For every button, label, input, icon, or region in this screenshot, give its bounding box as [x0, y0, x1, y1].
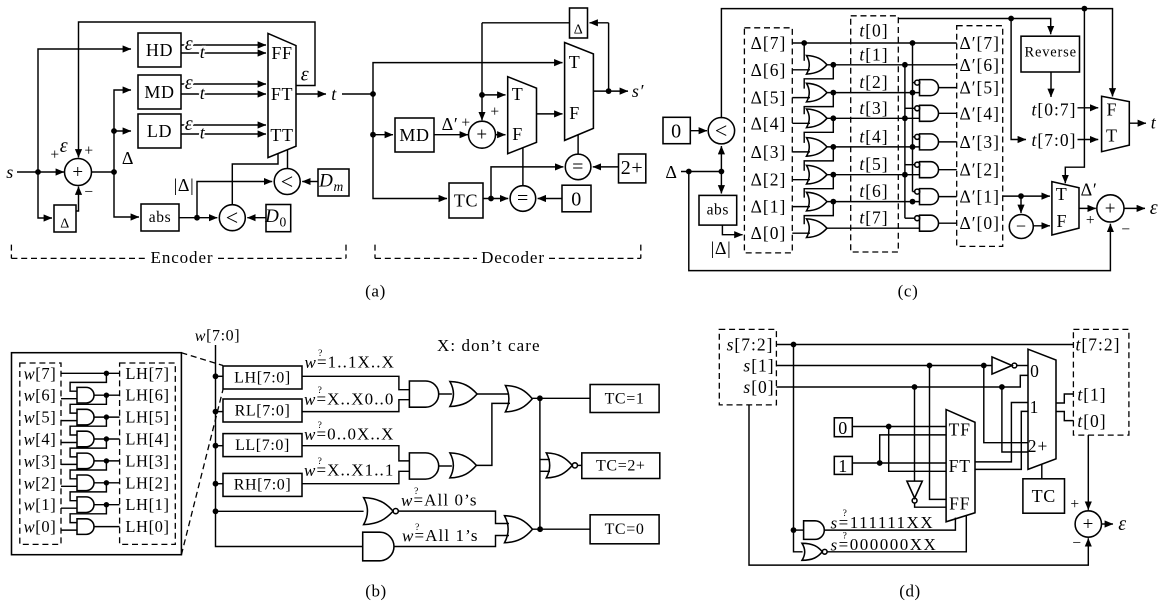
- encoder bracket dashes: [11, 257, 346, 259]
- svg-text:w[4]: w[4]: [24, 430, 57, 449]
- delay register Z1 encoder: [54, 205, 76, 232]
- svg-text:LD: LD: [147, 121, 172, 141]
- comparator U8 equals lower: [510, 186, 536, 212]
- junction D7 gate: [801, 40, 807, 46]
- wire Dm to comparator: [302, 181, 318, 183]
- svg-text:0: 0: [671, 121, 682, 143]
- gate OR c5: [807, 165, 828, 184]
- svg-text:ε: ε: [1150, 197, 1158, 219]
- junction b2: [104, 414, 109, 419]
- svg-text:Δ: Δ: [574, 23, 584, 38]
- wire LD t to mux TT: [181, 133, 266, 135]
- svg-text:Δ′[3]: Δ′[3]: [959, 132, 1000, 152]
- block 0 constant decoder: [562, 185, 591, 212]
- junction t bus branch: [1008, 16, 1014, 22]
- wire all1 out to or3: [394, 536, 509, 547]
- gate OR m2: [450, 453, 477, 478]
- wire s input to adder: [17, 171, 64, 173]
- svg-text:?: ?: [414, 487, 419, 497]
- svg-text:2+: 2+: [621, 157, 643, 179]
- gate AND c1: [920, 80, 939, 96]
- junction A t6: [910, 199, 916, 205]
- bubble nor d: [822, 549, 827, 554]
- svg-text:Δ[5]: Δ[5]: [751, 88, 787, 108]
- wire D6 stub: [792, 69, 810, 71]
- svg-text:Reverse: Reverse: [1025, 45, 1077, 61]
- wire s to delay input: [38, 172, 52, 218]
- wire or3 out to TC0: [533, 528, 591, 530]
- wire bubble stub 3: [913, 136, 915, 138]
- decoder bracket dashes: [375, 257, 641, 259]
- bubble and5: [915, 189, 920, 194]
- svg-text:Δ′[2]: Δ′[2]: [959, 160, 1000, 180]
- svg-text:0: 0: [838, 418, 848, 438]
- svg-text:+: +: [490, 104, 499, 121]
- mux U13 reverse select: [1102, 96, 1130, 151]
- adder U12 c: [1097, 195, 1124, 222]
- wire bubble stub 6: [905, 217, 915, 219]
- gate OR big: [505, 386, 532, 412]
- wire bubble stub 5: [913, 191, 915, 193]
- wire LL to and2: [302, 446, 409, 461]
- wire Delta up to comparator: [720, 146, 722, 172]
- junction Delta bottom branch: [686, 169, 692, 175]
- wire sign select top line: [721, 9, 1112, 119]
- junction g3: [830, 115, 836, 121]
- svg-text:+: +: [1086, 212, 1095, 229]
- junction g2: [830, 90, 836, 96]
- svg-text:T: T: [1106, 126, 1118, 146]
- zoom dashed diag top: [181, 353, 223, 366]
- t dashed bus box d: [1073, 329, 1129, 435]
- detail outer box: [12, 353, 182, 555]
- delay register Z2 decoder: [570, 8, 588, 38]
- gate AND b6: [77, 497, 94, 513]
- block 0 constant d: [834, 418, 852, 437]
- decoder bracket left tick: [374, 245, 376, 259]
- svg-text:RH[7:0]: RH[7:0]: [234, 477, 292, 494]
- wire s72 to t72: [776, 344, 1073, 346]
- encoder bracket left tick: [10, 245, 12, 259]
- wire mux output t: [296, 93, 326, 95]
- wire w0 stub: [61, 529, 78, 531]
- svg-text:Encoder: Encoder: [151, 248, 214, 267]
- gate AND c6: [920, 215, 939, 231]
- wire delta to LD: [114, 130, 131, 132]
- svg-text:?: ?: [843, 509, 848, 519]
- svg-text:s′: s′: [632, 81, 645, 101]
- svg-text:(c): (c): [898, 282, 919, 301]
- wire mux select from comparator D0: [232, 154, 278, 205]
- svg-text:<: <: [281, 169, 294, 194]
- wire zig c2: [804, 65, 833, 89]
- junction 1: [877, 460, 883, 466]
- svg-text:<: <: [715, 118, 728, 143]
- bubble inverter d: [912, 498, 917, 503]
- svg-text:t[0]: t[0]: [859, 21, 888, 41]
- adder U5 decoder: [469, 121, 496, 148]
- wire w7 to LH7: [61, 372, 120, 374]
- svg-text:F: F: [1106, 100, 1117, 120]
- wire t1 line: [827, 64, 957, 66]
- svg-text:w[6]: w[6]: [24, 386, 57, 405]
- wire D2 stub: [792, 179, 810, 181]
- wire nor zeros out to mux select: [827, 516, 966, 552]
- wire bubble stub 1: [913, 82, 915, 84]
- svg-text:FT: FT: [271, 84, 293, 104]
- svg-text:Δ[4]: Δ[4]: [751, 113, 787, 133]
- svg-text:Δ[7]: Δ[7]: [751, 33, 787, 53]
- wire t to MD decoder: [373, 134, 393, 136]
- block abs: [141, 204, 179, 231]
- svg-text:|Δ|: |Δ|: [711, 238, 732, 258]
- junction A t2: [910, 90, 916, 96]
- bubble and2: [915, 106, 920, 111]
- wire vertical A t even: [912, 43, 914, 192]
- svg-text:t[7:2]: t[7:2]: [1076, 335, 1121, 355]
- adder U1 sum circle: [65, 159, 92, 186]
- wire gate b6 out: [94, 504, 120, 506]
- wire HD t to mux FF: [181, 52, 266, 54]
- svg-text:t[6]: t[6]: [859, 181, 888, 201]
- svg-text:HD: HD: [146, 40, 173, 60]
- junction or3 out: [537, 526, 543, 532]
- svg-text:Δ′[6]: Δ′[6]: [959, 55, 1000, 75]
- svg-text:ε: ε: [185, 33, 193, 55]
- svg-text:Δ[0]: Δ[0]: [751, 223, 787, 243]
- svg-text:w=All 0’s: w=All 0’s: [401, 491, 478, 510]
- junction B t1: [902, 62, 908, 68]
- wire D0 to comparator: [247, 217, 266, 219]
- wire select to TF mux: [1065, 9, 1084, 184]
- svg-text:w[7:0]: w[7:0]: [195, 328, 240, 345]
- svg-text:?: ?: [318, 421, 323, 431]
- svg-text:Δ: Δ: [60, 217, 70, 232]
- wire and2 out: [939, 112, 957, 114]
- wire s72 vertical to gates: [794, 345, 803, 552]
- svg-text:+: +: [84, 143, 93, 160]
- svg-text:+: +: [1070, 496, 1079, 513]
- wire 0 to equals: [538, 198, 562, 200]
- svg-text:FF: FF: [949, 494, 970, 514]
- wire w4 stub: [61, 442, 78, 444]
- mux U6 inner decoder: [508, 77, 537, 154]
- wire s0 line: [776, 375, 1028, 387]
- wire t4 line: [827, 146, 920, 148]
- gate OR c3: [807, 109, 828, 128]
- SECTION C: [663, 6, 1158, 301]
- wire t bus to reverse: [898, 19, 1050, 35]
- svg-text:s: s: [6, 162, 14, 182]
- svg-text:ε: ε: [185, 72, 193, 94]
- wire or1 to bigor: [477, 393, 509, 395]
- wire w2 stub: [61, 485, 78, 487]
- wire s1 line: [776, 365, 992, 367]
- junction bigor out: [537, 395, 543, 401]
- wire t3 line: [827, 117, 920, 119]
- mux U11 TF c: [1052, 182, 1079, 235]
- svg-text:w[7]: w[7]: [24, 364, 57, 383]
- block LD: [138, 114, 181, 148]
- svg-text:−: −: [1016, 216, 1027, 236]
- svg-text:2+: 2+: [1028, 436, 1049, 456]
- wire and ones out to mux select: [824, 518, 955, 531]
- junction inner mux T branch: [479, 92, 485, 98]
- encoder bracket right tick: [345, 245, 347, 259]
- gate AND c4: [920, 162, 939, 178]
- svg-text:w[1]: w[1]: [24, 495, 57, 514]
- wire t7 line: [827, 227, 920, 229]
- junction g1: [830, 62, 836, 68]
- wire Dp1 to mux T: [1003, 195, 1050, 197]
- svg-text:TT: TT: [270, 125, 293, 145]
- junction g6: [830, 199, 836, 205]
- wire and1 out: [939, 87, 957, 89]
- junction b4: [104, 458, 109, 463]
- wire t07 to revmux F: [1078, 107, 1099, 109]
- wire abs output: [179, 217, 217, 219]
- block MD decoder: [395, 118, 434, 152]
- block 1 constant d: [834, 456, 852, 474]
- wire and3 out: [939, 141, 957, 143]
- gate AND c2: [920, 105, 939, 121]
- wire bus to LL: [216, 445, 224, 447]
- wire mux select from comparator Dm: [287, 150, 289, 169]
- junction bus LH: [213, 373, 219, 379]
- svg-text:Δ: Δ: [122, 148, 134, 168]
- wire zig c6: [804, 175, 833, 198]
- wire TC out to equals lower: [483, 198, 508, 200]
- wire 0 to comparator: [690, 130, 707, 132]
- junction abs out: [194, 215, 200, 221]
- svg-text:t: t: [331, 84, 337, 104]
- svg-text:t[0]: t[0]: [1077, 411, 1106, 431]
- wire s1 to FF: [930, 366, 947, 500]
- junction s72: [791, 342, 797, 348]
- bubble and3: [915, 134, 920, 139]
- svg-text:ε: ε: [60, 135, 68, 157]
- wire inner mux out to outer mux F: [537, 113, 563, 115]
- svg-text:0: 0: [1030, 361, 1040, 381]
- svg-text:F: F: [1056, 211, 1067, 231]
- gate AND b5: [77, 475, 94, 491]
- svg-text:+: +: [1083, 514, 1094, 535]
- wire inverter to 0 input: [1017, 365, 1028, 367]
- wire RH to and2: [302, 471, 409, 483]
- svg-text:Δ′[4]: Δ′[4]: [959, 103, 1000, 123]
- gate AND b4: [77, 453, 94, 469]
- wire MD to adder decoder: [434, 134, 468, 136]
- svg-text:t[1]: t[1]: [1077, 385, 1106, 405]
- wire s bus feedback bottom: [749, 405, 1088, 565]
- bubble inverter d2: [1012, 363, 1017, 368]
- wire t5 line: [827, 174, 920, 176]
- wire bigmux out t0: [1056, 412, 1073, 421]
- svg-text:1: 1: [1030, 397, 1040, 417]
- svg-text:t[4]: t[4]: [859, 126, 888, 146]
- block TC decoder: [449, 183, 483, 218]
- wire 2plus to equals: [593, 166, 619, 168]
- wire D1 stub: [792, 206, 810, 208]
- svg-text:TC=2+: TC=2+: [596, 457, 646, 474]
- wire D3 stub: [792, 151, 810, 153]
- wire gate b1 out: [94, 394, 120, 396]
- svg-text:(d): (d): [899, 582, 921, 601]
- svg-text:t[2]: t[2]: [859, 72, 888, 92]
- block TC d: [1023, 479, 1065, 513]
- wire bigmux out t1: [1056, 394, 1073, 403]
- mux U7 outer decoder: [565, 43, 594, 141]
- junction Dp1: [1018, 193, 1024, 199]
- wire t up to outer mux T: [373, 63, 563, 94]
- adder U16 d: [1075, 511, 1101, 537]
- wire bus to RL: [216, 411, 224, 413]
- junction B t3: [902, 115, 908, 121]
- block TC0: [590, 515, 659, 544]
- svg-text:abs: abs: [707, 202, 729, 219]
- gate OR c7: [807, 219, 828, 238]
- svg-text:?: ?: [843, 532, 848, 542]
- wire zig b3: [70, 417, 106, 435]
- svg-text:1: 1: [838, 456, 848, 476]
- svg-text:T: T: [512, 84, 524, 104]
- wire reverse to t07: [1050, 72, 1052, 97]
- wire bus to LH: [216, 375, 224, 377]
- svg-text:Δ′[5]: Δ′[5]: [959, 78, 1000, 98]
- wire and6 out: [939, 222, 957, 224]
- wire revmux out t: [1129, 122, 1146, 124]
- svg-text:ε: ε: [1118, 513, 1126, 535]
- svg-text:Δ[2]: Δ[2]: [751, 170, 787, 190]
- SECTION A ENCODER: [6, 22, 386, 301]
- wire 1 crossover to TF: [880, 435, 946, 463]
- svg-text:FF: FF: [271, 43, 292, 63]
- wire delay output to adder minus: [76, 187, 79, 212]
- wire zig b4: [70, 439, 106, 457]
- gate AND m1: [409, 381, 438, 407]
- wire 0 crossover to FT: [889, 427, 946, 472]
- svg-text:Δ′: Δ′: [1081, 180, 1098, 200]
- wire bubble stub 4: [905, 164, 915, 166]
- comparator U4 less-than D0: [219, 205, 245, 231]
- block TC1: [590, 385, 659, 413]
- svg-text:ε: ε: [301, 64, 309, 86]
- svg-text:=: =: [517, 188, 529, 210]
- svg-text:t[1]: t[1]: [859, 44, 888, 64]
- wire HD eps to mux FF: [181, 44, 266, 46]
- bubble and1: [915, 80, 920, 85]
- wire nor2 out: [578, 464, 582, 466]
- wire bigmux select TC: [1041, 464, 1043, 479]
- junction delta node: [111, 169, 117, 175]
- junction g4: [830, 144, 836, 150]
- SECTION B: [12, 328, 660, 601]
- wire LH to and1: [302, 376, 409, 389]
- svg-text:w[5]: w[5]: [24, 408, 57, 427]
- t dashed bus box: [851, 16, 899, 252]
- svg-text:LH[2]: LH[2]: [125, 473, 169, 492]
- junction t0 branch: [910, 40, 916, 46]
- svg-text:s[1]: s[1]: [743, 356, 774, 376]
- svg-text:s[7:2]: s[7:2]: [727, 335, 774, 355]
- wire mux to adder c: [1079, 207, 1096, 209]
- wire delta down to abs: [114, 172, 139, 217]
- wire adder output delta: [92, 171, 115, 173]
- svg-text:t: t: [200, 83, 206, 103]
- wire MD eps to mux FT: [181, 83, 266, 85]
- svg-text:−: −: [1072, 535, 1081, 552]
- svg-text:abs: abs: [149, 209, 171, 226]
- svg-text:Δ: Δ: [665, 162, 677, 182]
- wire gate b2 out: [94, 416, 120, 418]
- svg-text:+: +: [1105, 198, 1116, 219]
- svg-text:−: −: [1121, 221, 1130, 238]
- block 2plus constant: [619, 154, 646, 183]
- wire Delta to subtract bottom line: [689, 172, 1111, 271]
- wire zig b7: [70, 505, 106, 523]
- gate OR m1: [450, 382, 477, 407]
- wire zig b1: [70, 373, 106, 391]
- wire bigor out to TC1: [532, 397, 590, 399]
- wire LD eps to mux TT: [181, 124, 266, 126]
- junction top branch: [1082, 6, 1088, 12]
- junction bus LL: [213, 443, 219, 449]
- wire stub to and: [794, 529, 804, 531]
- gate AND d ones: [804, 521, 825, 540]
- gate AND b1: [77, 387, 94, 403]
- junction b5: [104, 480, 109, 485]
- gate AND c3: [920, 134, 939, 150]
- wire sprime up to delay: [608, 23, 610, 91]
- svg-text:LH[4]: LH[4]: [125, 430, 169, 449]
- wire zig b2: [70, 395, 106, 413]
- svg-text:t[7:0]: t[7:0]: [1032, 130, 1077, 150]
- block abs c: [699, 195, 737, 225]
- junction w7: [104, 371, 109, 376]
- svg-text:w[0]: w[0]: [24, 517, 57, 536]
- mux U2 encoder trapezoid: [268, 33, 296, 157]
- svg-text:LH[0]: LH[0]: [125, 517, 169, 536]
- wire inverter to FF: [915, 503, 947, 507]
- svg-text:w[3]: w[3]: [24, 451, 57, 470]
- wire epsilon feedback from mux to adder top: [79, 22, 316, 158]
- junction b1: [104, 393, 109, 398]
- wire zig c7: [804, 202, 833, 225]
- junction MD branch: [370, 132, 376, 138]
- wire t2 line: [827, 92, 920, 94]
- decoder bracket right tick: [640, 245, 642, 259]
- wire MD t to mux FT: [181, 93, 266, 95]
- svg-text:?: ?: [318, 386, 323, 396]
- wire t70 to revmux T: [1078, 139, 1099, 141]
- junction 0: [886, 424, 892, 430]
- gate AND c5: [920, 189, 939, 205]
- block Dm constant: [318, 169, 349, 196]
- svg-text:Δ′[7]: Δ′[7]: [959, 33, 1000, 53]
- svg-text:LH[5]: LH[5]: [125, 408, 169, 427]
- wire w3 stub: [61, 463, 78, 465]
- wire outer mux output sprime: [593, 90, 628, 92]
- svg-text:RL[7:0]: RL[7:0]: [235, 402, 291, 419]
- wire gate b5 out: [94, 482, 120, 484]
- wire RL to and1: [302, 400, 409, 412]
- wire vertical B t odd: [904, 65, 906, 218]
- block MD: [138, 75, 181, 109]
- svg-text:t: t: [1151, 113, 1157, 133]
- wire gate b4 out: [94, 460, 120, 462]
- comparator U9 equals upper: [565, 154, 591, 180]
- svg-text:LH[7]: LH[7]: [125, 364, 169, 383]
